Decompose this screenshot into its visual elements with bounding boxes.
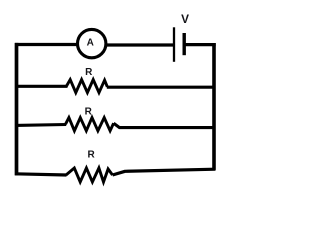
ammeter U1 [78, 29, 106, 57]
wire top-left (left rail to ammeter) [15, 43, 77, 46]
wire branch1 right [107, 86, 216, 89]
left rail wire [15, 43, 19, 176]
resistor R3 [66, 168, 113, 182]
wire battery to top-right corner [185, 43, 216, 46]
wire branch2 left [15, 123, 66, 127]
svg-text:R: R [87, 150, 95, 161]
wire branch2 right [114, 123, 215, 127]
wire branch1 left [15, 85, 68, 88]
battery V1 [174, 27, 184, 62]
svg-text:R: R [85, 67, 93, 78]
wire bottom-left [15, 174, 67, 175]
resistor R2 [66, 118, 114, 131]
wire ammeter to battery [107, 43, 174, 46]
resistor R1 [66, 80, 107, 93]
wire bottom-right [113, 169, 216, 175]
right rail wire [212, 43, 216, 170]
svg-text:R: R [85, 107, 93, 118]
svg-text:V: V [181, 12, 189, 26]
svg-text:A: A [87, 38, 94, 49]
